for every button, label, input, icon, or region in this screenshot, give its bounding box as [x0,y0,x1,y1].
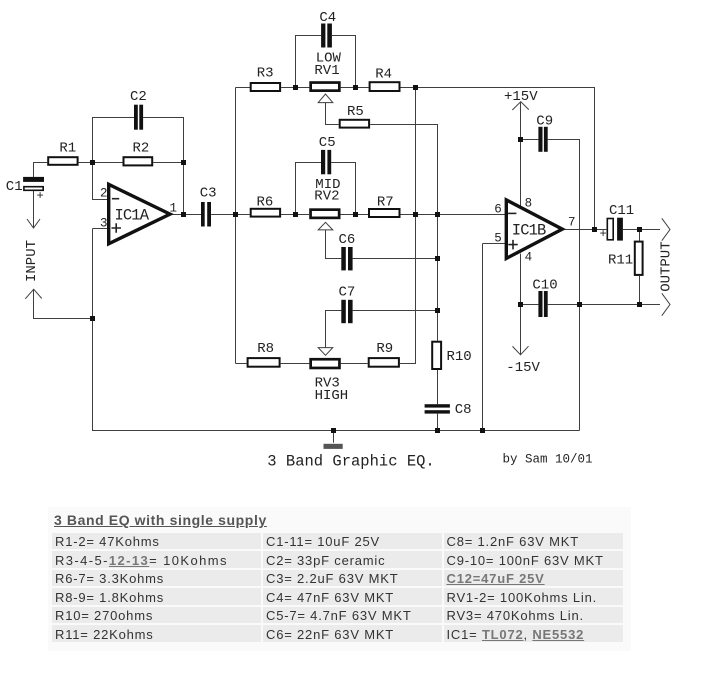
svg-text:INPUT: INPUT [24,240,40,282]
svg-text:R4: R4 [375,67,392,83]
svg-text:C6: C6 [339,232,356,248]
svg-text:R11: R11 [608,253,633,269]
svg-text:HIGH: HIGH [315,388,349,404]
svg-text:OUTPUT: OUTPUT [658,241,674,291]
svg-text:3 Band Graphic EQ.: 3 Band Graphic EQ. [267,453,434,471]
svg-text:C9: C9 [536,113,553,129]
svg-text:C10: C10 [532,278,557,294]
svg-text:8: 8 [525,197,533,211]
svg-text:R7: R7 [377,194,394,210]
svg-text:+: + [600,227,607,241]
svg-text:RV1: RV1 [314,63,339,79]
svg-text:by Sam 10/01: by Sam 10/01 [503,453,593,467]
svg-text:C4: C4 [319,10,336,26]
svg-text:4: 4 [525,251,533,265]
svg-text:2: 2 [100,186,108,200]
svg-text:1: 1 [170,202,178,216]
svg-text:R1: R1 [59,140,76,156]
svg-text:R3: R3 [257,65,274,81]
svg-text:IC1B: IC1B [512,222,546,240]
svg-text:-15V: -15V [506,360,540,376]
svg-text:6: 6 [494,203,502,217]
svg-text:+15V: +15V [504,89,538,105]
svg-text:R5: R5 [347,104,364,120]
svg-text:R6: R6 [257,194,274,210]
svg-text:C2: C2 [130,89,147,105]
svg-text:3: 3 [100,216,108,230]
svg-text:+: + [37,189,44,203]
svg-text:C5: C5 [319,135,336,151]
svg-text:C8: C8 [455,402,472,418]
svg-text:RV2: RV2 [314,189,339,205]
svg-text:C7: C7 [339,285,356,301]
svg-text:R9: R9 [376,341,393,357]
svg-text:C3: C3 [200,185,217,201]
svg-text:C11: C11 [609,203,634,219]
svg-text:R2: R2 [133,140,150,156]
svg-text:5: 5 [494,231,502,245]
svg-text:C1: C1 [6,179,23,195]
svg-text:R10: R10 [447,349,472,365]
svg-text:7: 7 [568,216,576,230]
svg-text:R8: R8 [257,341,274,357]
svg-text:IC1A: IC1A [115,207,150,225]
